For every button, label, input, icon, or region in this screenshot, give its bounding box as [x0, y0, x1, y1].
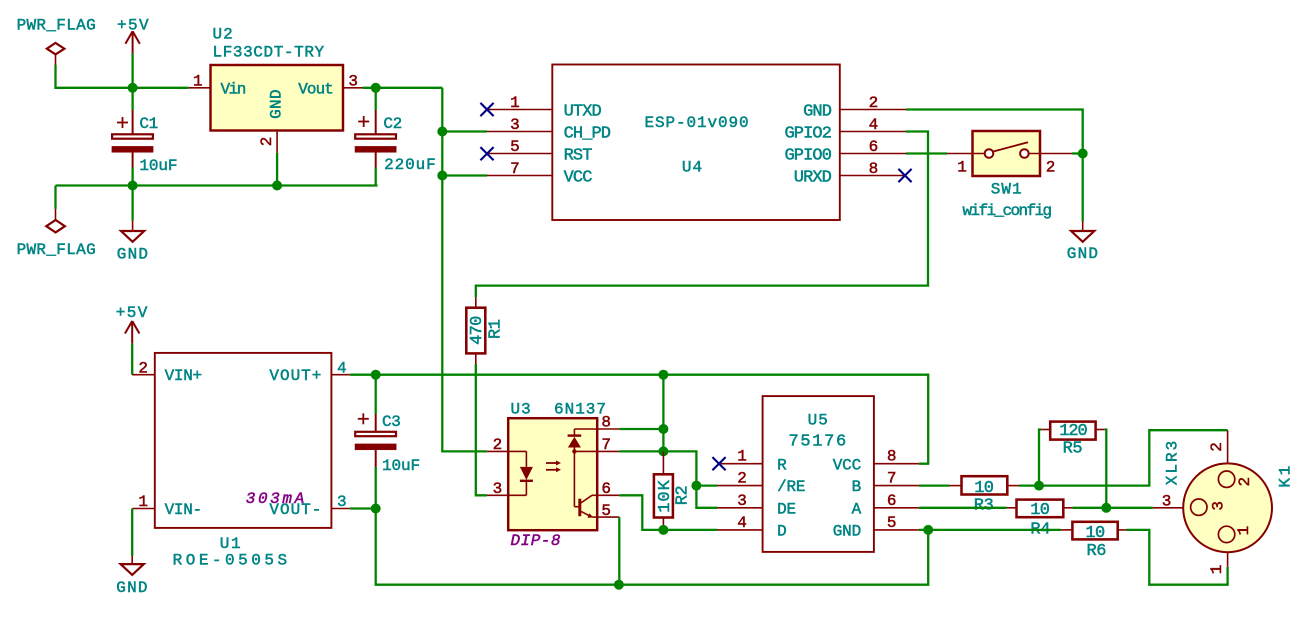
value 10uF (C1) — [139, 157, 177, 175]
wire rail to VCC U4 — [442, 174, 487, 176]
svg-text:GND: GND — [833, 523, 861, 541]
wire U4 GND to SW node — [906, 110, 1083, 154]
U5 pin 3 (DE) — [717, 492, 796, 519]
svg-text:10: 10 — [1030, 501, 1050, 520]
U3 pin 7 — [597, 436, 619, 454]
field DIP-8 — [511, 532, 562, 550]
svg-text:2: 2 — [138, 359, 148, 377]
svg-text:U1: U1 — [220, 535, 242, 553]
junction rail / CH_PD — [437, 127, 447, 137]
svg-text:4: 4 — [869, 116, 879, 134]
field XLR3 — [1164, 439, 1182, 485]
svg-text:4: 4 — [737, 514, 747, 532]
K1 contact hole 1 — [1218, 526, 1253, 543]
svg-text:8: 8 — [601, 414, 611, 432]
wire SW1 pin2 to GND node — [1072, 152, 1083, 154]
U3 pin 5 — [597, 502, 619, 520]
value LF33CDT-TRY — [213, 44, 325, 62]
svg-text:Vin: Vin — [221, 80, 246, 98]
svg-text:URXD: URXD — [794, 169, 832, 188]
reference U3 — [511, 401, 532, 419]
svg-text:10: 10 — [1085, 524, 1105, 543]
svg-text:R5: R5 — [1063, 439, 1083, 458]
IC U1 body — [155, 353, 332, 528]
svg-text:GND: GND — [803, 103, 832, 122]
wire U1 pin1 to GND — [131, 509, 133, 565]
junction U3 pin5 / bus — [614, 580, 624, 590]
junction R2 / pin7 — [658, 446, 668, 456]
U4 pin 5 (RST) — [487, 138, 592, 165]
svg-text:10uF: 10uF — [139, 157, 177, 175]
resistor R6 leads — [1061, 529, 1127, 531]
power symbol +5V (U1) — [125, 321, 139, 344]
wire GPIO2 to R1 — [476, 132, 928, 298]
svg-text:ESP-01v090: ESP-01v090 — [644, 114, 749, 132]
junction rail / VCC U4 — [437, 171, 447, 181]
svg-text:120: 120 — [1059, 422, 1087, 441]
reference C1 — [139, 115, 157, 133]
svg-text:2: 2 — [1236, 477, 1254, 487]
wire U3 pin5 to GND bus — [618, 517, 620, 585]
svg-text:U4: U4 — [682, 158, 703, 176]
svg-text:3: 3 — [1162, 492, 1172, 510]
junction Vout / C2 — [371, 83, 381, 93]
ground symbol (under C1) — [121, 231, 144, 242]
svg-text:10: 10 — [974, 479, 994, 498]
wire R5 left riser — [1039, 430, 1041, 486]
capacitor C1 leads — [131, 88, 133, 186]
connector K1 body circle — [1183, 463, 1272, 552]
svg-text:C3: C3 — [382, 413, 400, 431]
svg-text:470: 470 — [468, 316, 487, 345]
value 10 (R3) — [974, 479, 994, 498]
U3 pin 6 — [597, 480, 619, 498]
svg-text:GPIO2: GPIO2 — [784, 125, 831, 144]
IC U5 body — [763, 396, 874, 552]
wire node to XLR pin2 — [1039, 430, 1228, 485]
net label +5V (U1) — [116, 304, 149, 322]
value wifi_config — [962, 202, 1051, 220]
svg-text:2: 2 — [493, 436, 503, 454]
resistor R4 body — [1017, 500, 1064, 518]
capacitor C2 leads — [375, 88, 377, 186]
U3 internal photodiode — [568, 429, 598, 507]
U1 pin 2 (VIN+) — [132, 359, 202, 385]
svg-text:Vout: Vout — [298, 80, 333, 98]
net label GND (under U1) — [116, 579, 148, 597]
SW1 pin 2 — [1029, 154, 1072, 177]
svg-text:U2: U2 — [213, 26, 234, 44]
U3 light arrows — [546, 461, 561, 473]
value 75176 — [788, 432, 848, 451]
svg-text:2: 2 — [1208, 442, 1226, 452]
svg-text:PWR_FLAG: PWR_FLAG — [17, 16, 96, 34]
svg-text:VOUT+: VOUT+ — [269, 367, 322, 385]
junction U2 pin2 / GND bus — [272, 181, 282, 191]
svg-text:1: 1 — [510, 94, 520, 112]
reference R5 — [1063, 439, 1083, 458]
U3 pin 2 — [487, 436, 508, 454]
value 220uF — [384, 156, 437, 174]
value 120 (R5) — [1059, 422, 1087, 441]
ground symbol (under SW1) — [1071, 231, 1094, 242]
IC U4 body — [552, 65, 840, 221]
wire R2 column — [662, 375, 664, 452]
svg-text:R6: R6 — [1086, 542, 1106, 561]
U4 pin 4 (GPIO2) — [784, 116, 906, 143]
U4 pin 2 (GND) — [803, 94, 906, 121]
svg-text:B: B — [852, 478, 861, 496]
wire 5V bus to U5 VCC — [376, 375, 929, 464]
svg-text:7: 7 — [887, 470, 897, 488]
wire U1 pin4 to 5V bus — [350, 374, 376, 376]
value 6N137 — [554, 401, 607, 419]
svg-text:3: 3 — [348, 72, 358, 90]
resistor R3 body — [962, 476, 1008, 494]
K1 contact hole 3 — [1191, 499, 1228, 515]
svg-text:GND: GND — [1067, 245, 1099, 263]
svg-text:VCC: VCC — [833, 456, 861, 474]
wire PWR2 riser — [54, 186, 56, 221]
U3 pin 8 — [597, 414, 619, 432]
net label GND (under C1) — [117, 246, 149, 264]
svg-text:RST: RST — [564, 147, 593, 166]
wire PWR1 to +5V node — [56, 65, 133, 88]
svg-text:+5V: +5V — [116, 304, 149, 322]
U5 pin 2 (/RE) — [717, 470, 805, 497]
resistor R3 leads — [949, 485, 1019, 487]
resistor R6 body — [1072, 522, 1117, 540]
wire node to U2 pin1 — [133, 87, 189, 89]
U5 pin 4 (D) — [717, 514, 786, 541]
svg-text:4: 4 — [337, 359, 347, 377]
svg-text:R: R — [777, 456, 787, 474]
svg-text:10K: 10K — [656, 479, 675, 513]
SW1 contacts and lever — [985, 142, 1029, 158]
svg-text:75176: 75176 — [788, 432, 848, 451]
wire GND bottom bus — [376, 509, 929, 585]
svg-text:UTXD: UTXD — [564, 103, 602, 122]
junction C1 / GND bus — [128, 181, 138, 191]
power flag symbol PWR2 — [46, 220, 65, 232]
wire U3 pin7 to R2/U5 — [619, 451, 717, 507]
svg-text:ROE-0505S: ROE-0505S — [173, 551, 291, 569]
wire +5V to U1 pin2 — [131, 344, 133, 375]
wire U5 GND to R6 — [919, 529, 1061, 531]
resistor R5 body — [1050, 422, 1095, 440]
svg-text:10uF: 10uF — [382, 457, 420, 475]
U4 pin 3 (CH_PD) — [487, 116, 611, 143]
wire GPIO0 to SW1 pin1 — [906, 152, 947, 154]
svg-text:GND: GND — [117, 246, 149, 264]
reference K1 — [1277, 463, 1295, 487]
wire R3 to node — [1019, 484, 1039, 486]
svg-text:6: 6 — [869, 138, 879, 156]
wire GND bus (top) — [56, 184, 378, 186]
U5 pin 5 (GND) — [833, 514, 919, 541]
value 10 (R6) — [1085, 524, 1105, 543]
value ESP-01v090 — [644, 114, 749, 132]
reference U5 — [808, 411, 829, 429]
reference U2 — [213, 26, 234, 44]
svg-text:D: D — [777, 523, 786, 541]
svg-text:VCC: VCC — [564, 169, 593, 188]
svg-text:7: 7 — [510, 160, 520, 178]
svg-text:U5: U5 — [808, 411, 829, 429]
svg-text:CH_PD: CH_PD — [564, 125, 611, 144]
U1 pin 1 (VIN-) — [132, 493, 202, 519]
wire R1 to U3 pin3 — [476, 364, 487, 495]
reference U4 — [682, 158, 703, 176]
svg-text:R1: R1 — [487, 319, 506, 339]
svg-text:5: 5 — [510, 138, 520, 156]
wire U1 pin3 to node — [350, 507, 376, 509]
K1 pin 3 lead — [1153, 492, 1183, 510]
wire node to XLR pin3 — [1106, 507, 1153, 509]
svg-text:A: A — [852, 500, 862, 518]
capacitor C2 plates — [355, 134, 396, 152]
K1 pin 2 lead — [1208, 430, 1228, 463]
svg-text:GPIO0: GPIO0 — [784, 147, 831, 166]
U1 pin 4 (VOUT+) — [269, 359, 350, 385]
reference R3 — [974, 497, 994, 516]
SW1 pin 1 — [947, 154, 985, 177]
wire C1 node to GND symbol — [131, 186, 133, 232]
wire node to GND symbol (right) — [1082, 154, 1084, 232]
U2 pin 2 (GND) — [258, 89, 286, 153]
power flag symbol PWR1 — [47, 43, 65, 65]
svg-text:5: 5 — [887, 514, 897, 532]
value 470 (R1) — [468, 316, 487, 345]
svg-text:8: 8 — [887, 448, 897, 466]
wire U5 B to R3 — [919, 484, 950, 486]
svg-text:2: 2 — [737, 470, 747, 488]
wire R5 right riser — [1105, 430, 1107, 508]
net label PWR_FLAG (bottom) — [17, 241, 96, 259]
U4 pin 7 (VCC) — [487, 160, 592, 187]
C1 polarity + — [117, 117, 128, 128]
svg-text:1: 1 — [737, 448, 747, 466]
svg-text:SW1: SW1 — [991, 181, 1023, 199]
reference R6 — [1086, 542, 1106, 561]
U5 pin 6 (A) — [852, 492, 919, 519]
junction VOUT- / C3 / GND bus — [371, 504, 381, 514]
wire U3 pin8 to node — [619, 428, 663, 430]
U5 pin 8 (VCC) — [833, 448, 919, 475]
svg-text:3: 3 — [493, 480, 503, 498]
svg-text:6N137: 6N137 — [554, 401, 607, 419]
no-connect X on U4 pin 1 — [480, 103, 493, 116]
svg-text:1: 1 — [1208, 565, 1226, 575]
U3 internal LED — [508, 451, 533, 495]
value 10uF (C3) — [382, 457, 420, 475]
net label +5V (top) — [117, 16, 150, 34]
junction VOUT+ / C3 — [371, 370, 381, 380]
optocoupler U3 body — [508, 418, 597, 530]
reference C2 — [383, 115, 401, 133]
svg-text:GND: GND — [268, 89, 286, 119]
svg-text:C2: C2 — [383, 115, 401, 133]
capacitor C3 plates — [355, 432, 396, 450]
K1 contact hole 2 — [1218, 471, 1254, 487]
U2 pin 3 (Vout) — [298, 72, 362, 98]
wire node to U5 /RE — [696, 484, 717, 486]
U5 pin 7 (B) — [852, 470, 919, 497]
svg-text:C1: C1 — [139, 115, 157, 133]
svg-text:3: 3 — [337, 493, 347, 511]
junction SW1 / U4 GND — [1078, 149, 1088, 159]
wire U2 pin2 to GND bus — [276, 153, 278, 186]
svg-text:3: 3 — [510, 116, 520, 134]
svg-text:1: 1 — [138, 493, 148, 511]
switch SW1 body — [973, 131, 1041, 176]
svg-text:1: 1 — [957, 159, 967, 177]
reference R2 — [673, 486, 692, 506]
U4 pin 8 (URXD) — [794, 160, 906, 187]
wire rail to CH_PD — [442, 130, 487, 132]
no-connect X on U4 pin 8 — [898, 169, 911, 182]
power symbol +5V (top) — [125, 31, 139, 54]
wire Vout to rail — [363, 87, 443, 89]
junction R2 / D row — [658, 525, 668, 535]
svg-text:2: 2 — [258, 137, 276, 147]
svg-text:R2: R2 — [673, 486, 692, 506]
svg-text:1: 1 — [193, 72, 203, 90]
wire +3V3 rail down to U3 pin2 — [442, 88, 487, 452]
svg-text:7: 7 — [601, 436, 611, 454]
U3 internal transistor — [574, 495, 597, 518]
junction R4 / R5 right / XLR3 pin3 — [1101, 503, 1111, 513]
svg-text:8: 8 — [869, 160, 879, 178]
svg-text:1: 1 — [1235, 526, 1253, 536]
junction R3 / R5 left — [1034, 481, 1044, 491]
resistor R5 leads — [1041, 429, 1105, 431]
regulator U2 body — [211, 65, 344, 131]
reference U1 — [220, 535, 242, 553]
wire R6 to XLR pin1 — [1127, 530, 1228, 585]
junction R2 / pin8 — [658, 424, 668, 434]
junction U5 GND / bus riser — [923, 525, 933, 535]
net label PWR_FLAG (top) — [17, 16, 96, 34]
C3 polarity + — [358, 413, 369, 424]
value 10K (R2) — [656, 479, 675, 513]
svg-text:2: 2 — [1046, 159, 1056, 177]
wire +5V to node — [131, 54, 133, 88]
svg-text:6: 6 — [601, 480, 611, 498]
svg-text:PWR_FLAG: PWR_FLAG — [17, 241, 96, 259]
capacitor C3 leads — [375, 375, 377, 509]
net label GND (under SW1) — [1067, 245, 1099, 263]
wire U5 A to R4 — [919, 507, 1007, 509]
value ROE-0505S — [173, 551, 291, 569]
svg-text:DE: DE — [777, 500, 796, 518]
svg-text:VIN-: VIN- — [165, 501, 202, 519]
reference R4 — [1030, 520, 1050, 539]
svg-text:/RE: /RE — [777, 478, 805, 496]
svg-text:R3: R3 — [974, 497, 994, 516]
C2 polarity + — [358, 116, 369, 127]
capacitor C1 plates — [112, 134, 153, 152]
U5 pin 1 (R) — [717, 448, 787, 475]
K1 pin 1 lead — [1208, 552, 1228, 574]
no-connect X on U5 pin 1 — [712, 457, 725, 470]
junction +5V/C1/Vin — [128, 83, 138, 93]
reference SW1 — [991, 181, 1023, 199]
svg-text:XLR3: XLR3 — [1164, 439, 1182, 485]
wire U3 pin6 to U5 D — [619, 495, 717, 530]
resistor R1 body — [466, 308, 485, 354]
junction pin7 wire / DE-RE — [691, 481, 701, 491]
U3 pin 3 — [487, 480, 508, 498]
resistor R1 leads — [475, 297, 477, 364]
svg-text:K1: K1 — [1277, 463, 1295, 487]
U4 pin 1 (UTXD) — [487, 94, 602, 121]
U4 pin 6 (GPIO0) — [784, 138, 906, 165]
field 303mA — [246, 490, 307, 508]
resistor R2 leads — [662, 451, 664, 530]
svg-text:LF33CDT-TRY: LF33CDT-TRY — [213, 44, 325, 62]
U1 pin 3 (VOUT-) — [269, 493, 350, 519]
U2 pin 1 (Vin) — [189, 72, 246, 98]
svg-text:5: 5 — [601, 502, 611, 520]
svg-text:3: 3 — [1210, 501, 1228, 511]
svg-text:220uF: 220uF — [384, 156, 437, 174]
svg-text:2: 2 — [869, 94, 879, 112]
svg-text:U3: U3 — [511, 401, 532, 419]
svg-text:VIN+: VIN+ — [165, 367, 202, 385]
value 10 (R4) — [1030, 501, 1050, 520]
svg-text:3: 3 — [737, 492, 747, 510]
reference R1 — [487, 319, 506, 339]
svg-text:wifi_config: wifi_config — [962, 202, 1051, 220]
svg-text:6: 6 — [887, 492, 897, 510]
no-connect X on U4 pin 5 — [480, 147, 493, 160]
reference C3 — [382, 413, 400, 431]
svg-text:VOUT-: VOUT- — [269, 501, 322, 519]
wire R4 to node — [1072, 507, 1106, 509]
ground symbol (under U1) — [121, 564, 144, 575]
svg-text:GND: GND — [116, 579, 148, 597]
resistor R2 body — [654, 474, 673, 517]
svg-text:DIP-8: DIP-8 — [511, 532, 562, 550]
resistor R4 leads — [1007, 507, 1073, 509]
junction 5V bus / R2 column — [658, 370, 668, 380]
